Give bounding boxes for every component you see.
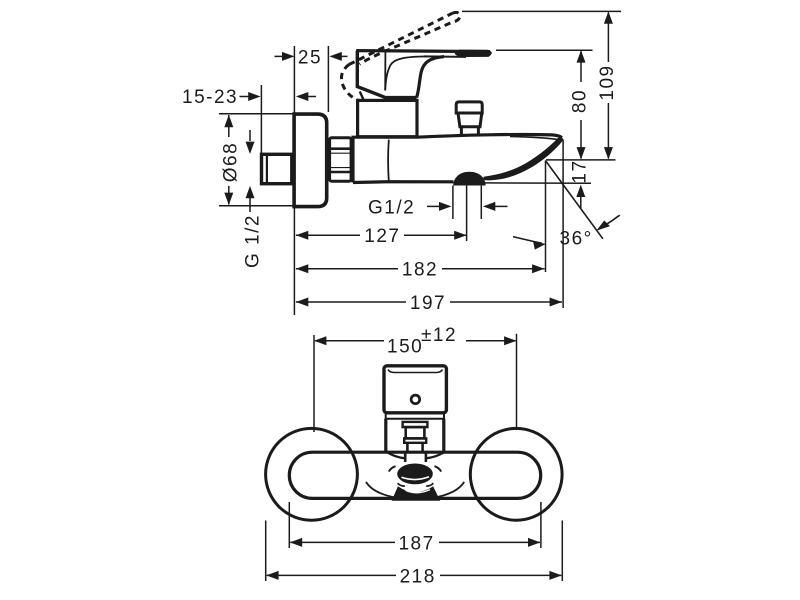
extension line x=563 (197) [562,140,564,309]
dimension 25 tails [275,55,284,57]
small arcs under ellipse [398,483,405,486]
whisker left [366,482,396,498]
extension line aerator center (127) [466,186,468,241]
handle (solid position) [356,51,490,52]
faucet body outline [353,137,417,182]
handle top inner line [388,370,443,373]
dimension 80 [580,51,582,82]
extension lines aerator edges (G1/2) [452,186,454,219]
svg-text:80: 80 [570,89,591,113]
Ø68 dimension line with arrows [228,115,230,137]
extension line x=545.5 (182) [545,161,547,273]
right escutcheon circle [470,428,562,520]
cap sides [384,419,387,452]
ellipse glint [402,477,430,480]
svg-text:182: 182 [402,260,438,281]
eyelash right [435,466,442,471]
whisker right [434,482,464,498]
dimension 218 [265,521,267,582]
union nut [330,138,352,181]
spout outlet ellipse (front) [397,464,433,485]
dimension 150±12 [313,335,315,432]
svg-text:±12: ±12 [421,325,457,346]
handle underside line to tip [424,55,466,58]
dimension 187 [288,502,290,548]
body top edge to spout tip [417,134,562,137]
dimension 17 [576,185,585,197]
body internal joint line [387,140,390,182]
left escutcheon circle [266,428,358,520]
extension line (handle top, 80) [496,49,593,51]
body bottom edge [353,180,454,184]
Ø68 top extension line [219,113,294,115]
extension line escutcheon front (25) [327,46,329,112]
wall line [293,46,295,315]
stem neck d [407,443,422,452]
dimension 197 [296,301,406,303]
reference line y=182.7 (aerator bottom to 17) [482,182,592,184]
threaded nipple [262,154,292,183]
dimension 182 [296,268,398,270]
svg-text:G1/2: G1/2 [368,197,415,218]
extension line nipple end (15-23) [260,85,262,153]
dashed handle (raised position) [341,12,459,101]
svg-text:36°: 36° [560,229,593,250]
nipple thread divider [266,155,268,184]
escutcheon (side view) [294,114,327,207]
svg-text:109: 109 [597,64,618,100]
svg-text:187: 187 [398,533,434,554]
cap left hint [360,92,364,101]
handle thick tip [455,50,492,57]
bottom reference line (spout low point) [546,159,616,161]
stem step b [406,427,425,438]
handle inner vertical line [384,53,386,91]
aerator dome [453,172,485,186]
eyelash left [389,466,396,471]
flare right [426,453,444,459]
36 degree diagonal [545,161,603,239]
svg-text:17: 17 [569,159,590,183]
svg-text:25: 25 [298,48,322,69]
svg-text:Ø68: Ø68 [221,142,242,182]
handle (front view) [384,366,446,413]
handle dot [411,395,420,404]
stem step a [403,422,428,427]
svg-text:197: 197 [410,293,446,314]
flare left [388,453,406,459]
svg-text:G 1/2: G 1/2 [242,214,263,268]
G 1/2 (wall nipple) dimension [249,130,251,141]
bowl (outlet lower lip) [392,487,439,500]
36 degree arc arrow right [603,215,620,226]
spout inner top line [510,136,559,139]
dimension 15-23 leader [240,96,250,98]
handle inner curve [385,56,427,90]
36 degree arc arrow left [513,237,542,244]
svg-text:15-23: 15-23 [182,87,238,108]
svg-text:127: 127 [364,226,400,247]
diverter knob [456,102,482,113]
capsule body [289,452,540,498]
dimension 127 [296,234,360,236]
svg-text:150: 150 [387,337,423,358]
stem below capsule top [404,452,407,462]
spout tip and under-curve (thick wedge) [484,137,564,180]
dimension 25 arrows [282,52,342,61]
svg-text:218: 218 [400,566,436,587]
top extension line (dashed tip, 109) [462,10,621,12]
dimension 109 [607,13,609,63]
Ø68 bottom extension line [219,205,294,207]
valve block [358,100,417,136]
stem step c [404,438,426,442]
band under handle [386,413,444,419]
